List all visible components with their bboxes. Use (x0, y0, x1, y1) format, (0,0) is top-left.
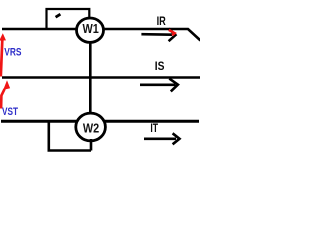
current-coil box on line R (47, 9, 90, 29)
svg-text:IT: IT (150, 123, 158, 135)
dash mark inside box (56, 14, 61, 17)
svg-text:W1: W1 (83, 22, 99, 36)
svg-text:VRS: VRS (4, 47, 21, 59)
wire line T (bottom phase) (1, 120, 199, 123)
wire line S (middle phase) (2, 76, 200, 79)
wire line R (top phase) (2, 29, 201, 41)
current arrow IS (black) (140, 79, 178, 92)
current arrow IR (black) (141, 29, 175, 42)
red arrowhead on line R near IR (169, 30, 175, 35)
wire vertical from W1 to W2 (89, 40, 92, 116)
svg-text:W2: W2 (83, 122, 99, 136)
voltage arrow VRS (red, pointing up) (0, 33, 6, 76)
svg-text:IS: IS (155, 61, 165, 73)
wattmeter W2 (76, 113, 106, 141)
wire W2 bottom stub (90, 139, 93, 151)
svg-text:IR: IR (157, 16, 167, 28)
voltage arrow VST (red, pointing up) (1, 80, 10, 108)
svg-text:VST: VST (2, 106, 18, 118)
current arrow IT (black) (144, 133, 180, 144)
wattmeter W1 (77, 18, 104, 42)
wire U-link from W2 to line T (49, 121, 91, 150)
